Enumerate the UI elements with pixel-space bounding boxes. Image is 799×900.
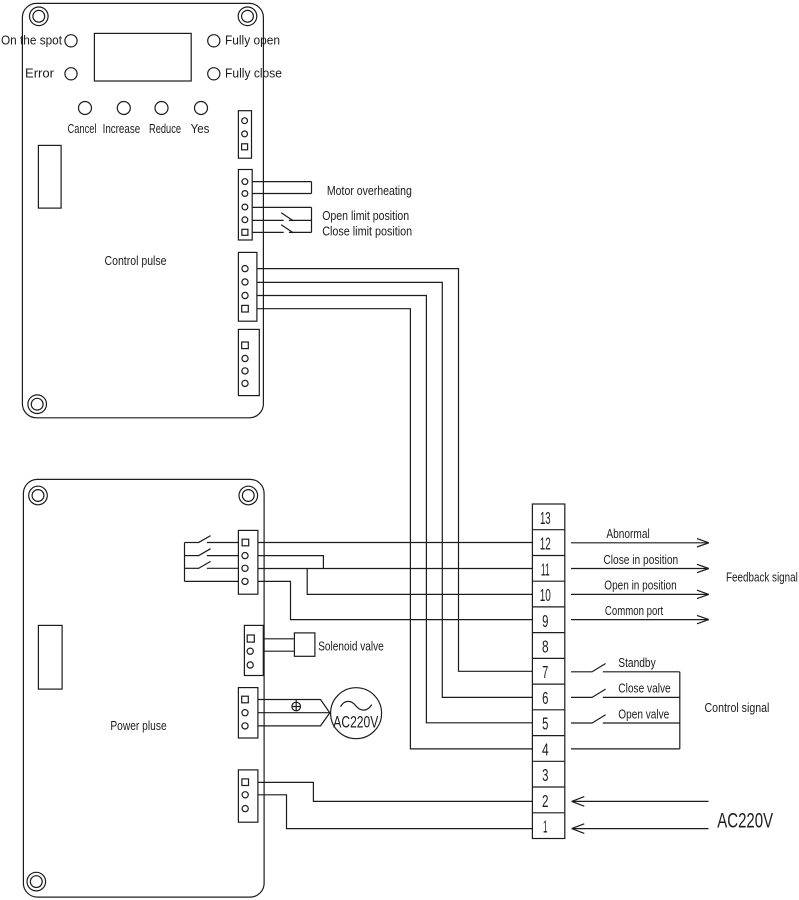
button Reduce [155, 102, 168, 115]
feedback wire Open in position (terminal 10) [571, 593, 709, 595]
mounting hole bottom-left of control board [28, 395, 47, 414]
limit switch bus vertical on power board [184, 543, 186, 582]
svg-text:8: 8 [542, 637, 549, 657]
connector CN2 (5-pin) [238, 170, 252, 241]
terminal separator below cell 13 [532, 529, 564, 531]
wire CN2 pin2 motor overheating bottom [252, 193, 311, 195]
feedback wire Common port (terminal 9) [571, 619, 709, 621]
switch feeding CN5 pin 2 [185, 555, 199, 557]
mounting hole top-right of control board [238, 7, 257, 26]
terminal separator below cell 11 [532, 580, 564, 582]
CN8 pin 2 [242, 792, 248, 798]
terminal separator below cell 4 [532, 760, 564, 762]
CN3 pin 4 (square) [242, 305, 249, 312]
svg-text:10: 10 [540, 585, 551, 605]
wire CN3 pin2 to terminal 6 [257, 282, 533, 697]
svg-text:13: 13 [540, 508, 551, 528]
svg-text:5: 5 [542, 714, 548, 734]
connector CN3 (4-pin) [238, 252, 257, 321]
slot cutout on power board [38, 625, 62, 689]
control board panel outline [22, 3, 263, 417]
svg-text:Close in position: Close in position [603, 553, 678, 567]
wire terminal 4 to control bus [571, 748, 680, 750]
CN3 pin 1 [242, 266, 248, 272]
CN5 pin 2 [242, 553, 248, 559]
wire CN7 pin1 to AC source [258, 700, 330, 713]
wire CN6 pin1 to solenoid valve [263, 638, 294, 640]
CN2 pin 3 [242, 204, 248, 210]
svg-text:Common port: Common port [605, 604, 664, 618]
switch Close valve (terminal 6) [571, 696, 592, 698]
LED indicator: Fully close [208, 68, 220, 80]
switch feeding CN5 pin 3 [185, 567, 199, 569]
button Increase [117, 102, 130, 115]
wire CN5 pin2 to terminal 11 [258, 556, 324, 569]
terminal separator below cell 6 [532, 709, 564, 711]
CN6 pin 1 (square) [247, 635, 254, 642]
feedback wire Close in position (terminal 11) [571, 568, 709, 570]
switch feeding CN5 pin 1 [185, 542, 199, 544]
CN7 pin 1 (square) [242, 696, 249, 703]
CN7 pin 3 [242, 723, 248, 729]
switch Open valve (terminal 5) [571, 722, 592, 724]
sine wave inside AC source [341, 701, 372, 710]
display window [94, 33, 191, 81]
wire CN2 pin3 limit common [252, 206, 311, 208]
switch: open limit position contact [252, 219, 284, 221]
CN1 pin 1 [242, 118, 248, 124]
terminal separator below cell 10 [532, 606, 564, 608]
CN4 pin 2 [242, 355, 248, 361]
svg-text:Close valve: Close valve [618, 682, 670, 696]
wire bus to CN5 pin 4 [185, 580, 239, 582]
mounting hole top-left of control board [30, 7, 49, 26]
AC input arrow to terminal 2 [572, 800, 709, 802]
terminal separator below cell 8 [532, 657, 564, 659]
CN2 pin 2 [242, 191, 248, 197]
feedback wire Abnormal (terminal 12) [571, 542, 709, 544]
CN7 pin 2 [242, 710, 248, 716]
slot cutout on control board [38, 145, 61, 208]
solenoid valve box [294, 633, 315, 656]
CN1 pin 3 (square) [242, 144, 248, 150]
svg-text:11: 11 [541, 559, 550, 579]
wire CN7 pin2 to AC source [258, 712, 330, 714]
svg-text:6: 6 [542, 688, 548, 708]
svg-text:AC220V: AC220V [333, 714, 378, 732]
mounting hole bottom-left of power board [27, 872, 46, 891]
CN4 pin 4 [242, 380, 248, 386]
CN3 pin 2 [242, 279, 248, 285]
svg-text:Increase: Increase [103, 122, 141, 136]
svg-text:Close limit position: Close limit position [322, 224, 412, 238]
button Cancel [79, 102, 92, 115]
LED indicator: On the spot [65, 35, 77, 47]
wire limit bus vertical [311, 207, 313, 232]
CN8 pin 3 [242, 806, 248, 812]
terminal separator below cell 2 [532, 812, 564, 814]
wire motor overheating right side [311, 182, 313, 194]
CN6 pin 3 [247, 662, 253, 668]
LED indicator: Fully open [208, 35, 220, 47]
connector CN7 (3-pin AC input) [238, 688, 258, 738]
AC input arrow to terminal 1 [572, 828, 709, 830]
button Yes [195, 102, 208, 115]
protective earth symbol on AC wire [292, 702, 301, 711]
svg-text:On the spot: On the spot [1, 34, 62, 48]
svg-text:Reduce: Reduce [149, 122, 181, 136]
mounting hole top-left of power board [29, 486, 48, 505]
CN3 pin 3 [242, 292, 248, 298]
svg-text:Error: Error [25, 67, 54, 81]
terminal block outline [532, 504, 564, 839]
power board panel outline [23, 479, 264, 897]
wire CN3 pin3 to terminal 5 [257, 296, 533, 723]
CN8 pin 1 (square) [242, 779, 249, 786]
terminal separator below cell 9 [532, 632, 564, 634]
CN5 pin 4 [242, 578, 248, 584]
connector CN8 (3-pin) [238, 770, 258, 822]
svg-text:Fully close: Fully close [225, 67, 282, 81]
svg-text:Feedback signal: Feedback signal [726, 571, 798, 585]
svg-text:Open in position: Open in position [604, 578, 676, 592]
svg-text:Standby: Standby [618, 656, 656, 670]
CN2 pin 5 (square) [242, 229, 248, 235]
CN4 pin 1 (square) [242, 342, 249, 349]
svg-text:7: 7 [542, 662, 548, 682]
CN5 pin 1 (square) [242, 539, 249, 546]
control signal bus vertical [679, 672, 681, 749]
terminal separator below cell 3 [532, 786, 564, 788]
LED indicator: Error [65, 68, 77, 80]
svg-text:Control pulse: Control pulse [105, 254, 167, 268]
CN6 pin 2 [247, 648, 253, 654]
wire CN8 pin1 to terminal 2 [258, 782, 532, 801]
AC source circle [331, 688, 382, 739]
svg-text:3: 3 [542, 765, 548, 785]
terminal separator below cell 7 [532, 683, 564, 685]
svg-text:Power pluse: Power pluse [110, 719, 166, 733]
wire CN3 pin4 to terminal 4 [257, 309, 533, 749]
svg-text:Fully open: Fully open [225, 34, 280, 48]
svg-text:Motor overheating: Motor overheating [327, 184, 412, 198]
terminal separator below cell 12 [532, 555, 564, 557]
CN4 pin 3 [242, 368, 248, 374]
wire CN5 pin1 to terminal 12 [258, 542, 533, 544]
svg-text:Cancel: Cancel [68, 122, 97, 136]
svg-text:12: 12 [540, 534, 551, 554]
wire CN5 pin4 to terminal 9 [258, 581, 533, 619]
wire CN5 pin3 to terminal 10 (with shared segment to terminal 11) [258, 568, 533, 570]
svg-text:1: 1 [543, 817, 548, 837]
wire CN3 pin1 to terminal 7 [257, 269, 533, 672]
connector CN4 (4-pin) [238, 329, 259, 395]
svg-text:9: 9 [542, 611, 548, 631]
svg-text:Abnormal: Abnormal [606, 527, 649, 541]
CN2 pin 1 [242, 179, 248, 185]
svg-text:4: 4 [542, 739, 549, 759]
svg-text:Yes: Yes [191, 122, 210, 136]
connector CN6 (3-pin solenoid) [244, 625, 263, 675]
svg-text:Open valve: Open valve [618, 707, 669, 721]
svg-text:Open limit position: Open limit position [322, 209, 409, 223]
switch Standby (terminal 7) [571, 671, 592, 673]
switch: close limit position contact [252, 231, 284, 233]
terminal separator below cell 5 [532, 735, 564, 737]
svg-text:2: 2 [542, 791, 549, 811]
wire CN7 pin3 to AC source [258, 713, 330, 726]
wire CN8 pin2 to terminal 1 [258, 795, 532, 829]
connector CN1 (3-pin) [238, 111, 251, 159]
CN2 pin 4 [242, 217, 248, 223]
CN5 pin 3 [242, 565, 248, 571]
wire CN6 pin2 to solenoid valve [263, 650, 294, 652]
svg-text:AC220V: AC220V [717, 808, 773, 832]
mounting hole top-right of power board [239, 486, 258, 505]
CN1 pin 2 [242, 131, 248, 137]
svg-text:Solenoid valve: Solenoid valve [318, 639, 384, 653]
svg-text:Control signal: Control signal [705, 701, 770, 715]
connector CN5 (4-pin) [238, 530, 258, 594]
wire CN2 pin1 motor overheating top [252, 181, 311, 183]
